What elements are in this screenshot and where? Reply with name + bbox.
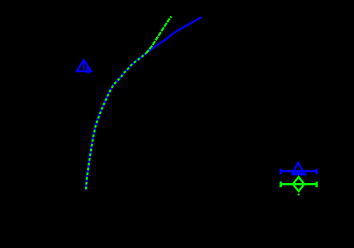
curve: green dotted data overlay (lower shared part) xyxy=(86,53,146,189)
curve: blue solid line (fit) xyxy=(86,17,201,189)
curve: green dotted upper branch xyxy=(146,16,171,53)
data point: blue open triangle marker xyxy=(77,60,91,74)
legend entry 1: blue errorbar sample with open triangle xyxy=(280,163,318,176)
legend entry 2: green errorbar sample with open diamond xyxy=(280,177,318,196)
